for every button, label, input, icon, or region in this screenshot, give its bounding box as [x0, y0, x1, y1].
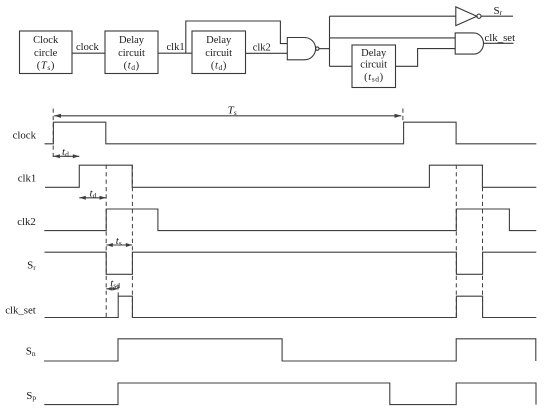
svg-text:td: td	[62, 146, 69, 159]
label Delay circuit (tsd) text U4	[360, 48, 387, 84]
svg-text:clk1: clk1	[18, 172, 37, 184]
wire G1 output to node A	[319, 48, 330, 50]
inverter G2	[456, 7, 481, 26]
arrow tsd measure	[106, 287, 118, 291]
label Delay circuit (td) text U3	[205, 35, 232, 72]
svg-text:clock: clock	[76, 42, 99, 53]
svg-text:tsd: tsd	[110, 278, 120, 291]
svg-text:ts: ts	[116, 235, 122, 248]
wire G3 output clk_set	[484, 42, 514, 44]
svg-text:clk2: clk2	[17, 216, 36, 228]
svg-text:circuit: circuit	[118, 48, 145, 59]
dashed line at clk2 rise 1	[105, 165, 107, 318]
node A vertical junction	[329, 16, 331, 66]
dashed line at clk_set rise 1	[117, 285, 119, 296]
svg-text:Sp: Sp	[26, 390, 36, 402]
wire node A to U4 input	[330, 65, 353, 67]
wire Sr waveform	[45, 252, 537, 274]
wire Sp waveform	[44, 383, 536, 405]
svg-text:clk1: clk1	[167, 42, 185, 53]
wire node A to inverter G2 input	[330, 15, 456, 17]
svg-text:Sn: Sn	[26, 346, 36, 358]
dashed line at clk2 rise 2	[455, 165, 457, 318]
wire node A to AND G3 top input	[330, 37, 456, 39]
svg-text:clk2: clk2	[253, 43, 271, 54]
svg-text:(td): (td)	[211, 60, 227, 72]
label Delay circuit (td) text U2	[118, 35, 145, 72]
svg-text:(tsd): (tsd)	[364, 72, 384, 84]
wire U4 output to AND G3 bottom input	[396, 49, 456, 67]
svg-text:circle: circle	[34, 48, 58, 59]
svg-text:Clock: Clock	[33, 35, 59, 46]
box U4 Delay circuit (tsd)	[352, 45, 396, 88]
wire clock: U1 to U2	[72, 52, 105, 54]
box U2 Delay circuit (td)	[105, 31, 158, 74]
svg-text:Delay: Delay	[119, 35, 145, 46]
svg-text:Delay: Delay	[361, 48, 387, 59]
svg-text:circuit: circuit	[205, 48, 232, 59]
wire clk2 waveform	[44, 209, 536, 231]
svg-text:clk_set: clk_set	[485, 32, 516, 44]
svg-text:clock: clock	[13, 130, 37, 142]
wire clk1: U2 to U3	[158, 52, 192, 54]
arrow td measure 1	[53, 154, 79, 158]
box U1 Clock circle (Ts)	[20, 31, 73, 74]
wire clk1 waveform	[45, 165, 536, 187]
svg-text:circuit: circuit	[360, 59, 387, 70]
svg-text:Sr: Sr	[494, 5, 503, 17]
wire clk_set waveform	[45, 296, 537, 317]
svg-text:Ts: Ts	[228, 104, 237, 117]
arrow ts measure	[106, 243, 132, 247]
arrow Ts measure	[54, 114, 402, 118]
svg-text:td: td	[90, 188, 97, 201]
arrow td measure 2	[79, 196, 106, 200]
svg-text:(td): (td)	[124, 60, 140, 72]
dashed line at clock rise 1	[52, 109, 54, 158]
wire G2 output Sr	[481, 15, 513, 17]
svg-text:Sr: Sr	[27, 260, 36, 272]
dashed line at clk1 fall 2	[482, 165, 484, 318]
wire clk2: U3 to NAND G1 bottom input	[246, 52, 288, 54]
dashed line at clk1 fall 1	[131, 165, 133, 318]
wire clock waveform	[45, 122, 537, 144]
svg-text:clk_set: clk_set	[5, 305, 36, 317]
wire clk1 feedback to NAND G1 top input	[186, 21, 287, 53]
wire Sn waveform	[44, 339, 536, 361]
svg-text:(Ts): (Ts)	[37, 60, 55, 72]
dashed line at clock rise 2	[402, 109, 404, 121]
nand-gate G1	[287, 38, 319, 60]
label Clock circle (Ts) text	[33, 35, 59, 72]
svg-text:Delay: Delay	[206, 35, 232, 46]
and-gate G3	[455, 33, 483, 54]
box U3 Delay circuit (td)	[192, 31, 246, 74]
